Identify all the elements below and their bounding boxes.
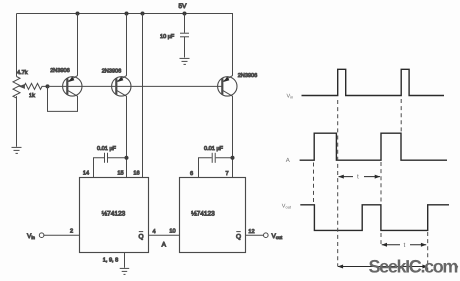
svg-text:Vin: Vin xyxy=(287,94,294,100)
resistor R2 1k xyxy=(24,83,48,89)
dashed line at A rise1 / Vout fall1 xyxy=(313,163,315,204)
svg-text:12: 12 xyxy=(248,229,254,235)
wire: Q2 collector to pin15 xyxy=(126,96,128,178)
capacitor C2 0.01uF xyxy=(94,153,127,178)
wire: Q2 emitter to rail xyxy=(126,14,128,76)
waveform A xyxy=(300,133,447,160)
node: rail junction pin16 wire xyxy=(141,12,145,16)
wire: pin16 wire rail to U1 xyxy=(142,14,144,178)
wire: U2 pin12 to Vout terminal xyxy=(246,234,264,236)
node: rail junction above Q1 emitter xyxy=(76,12,80,16)
wire: Q1 emitter to rail xyxy=(77,14,79,76)
op-amp U2 74123 monostable xyxy=(180,178,246,253)
capacitor C3 0.01uF xyxy=(199,153,233,178)
ground: below R1 xyxy=(12,147,22,153)
node: rail junction above Q2 emitter xyxy=(125,12,129,16)
svg-text:4.7k: 4.7k xyxy=(17,69,28,76)
svg-text:6: 6 xyxy=(190,171,193,177)
svg-text:16: 16 xyxy=(133,171,139,177)
svg-text:½74123: ½74123 xyxy=(102,211,126,218)
svg-text:Q: Q xyxy=(236,234,241,241)
potentiometer R1 4.7k xyxy=(13,77,20,99)
svg-text:Vout: Vout xyxy=(282,204,292,210)
waveform Vout xyxy=(300,205,449,231)
svg-text:15: 15 xyxy=(117,171,123,177)
svg-text:1, 9, 8: 1, 9, 8 xyxy=(103,258,119,264)
wiper arrow of R1 xyxy=(20,85,25,88)
dashed line at Vin pulse2 edge xyxy=(400,99,402,132)
transistor Q3 2N3906 xyxy=(218,76,237,97)
dimension arrow t (A low time) xyxy=(338,175,380,179)
op-amp U1 74123 monostable xyxy=(80,178,149,253)
wire: Q1 collector to base loop xyxy=(48,86,78,111)
svg-text:2N3906: 2N3906 xyxy=(50,68,70,74)
terminal: Vout output xyxy=(264,233,269,238)
dashed line at Vout rise2 xyxy=(427,232,429,274)
ground: below C1 xyxy=(180,58,190,64)
svg-text:2N3906: 2N3906 xyxy=(238,73,258,79)
node: base junction dot xyxy=(46,84,50,88)
svg-text:0.01 µF: 0.01 µF xyxy=(97,146,116,152)
svg-text:5V: 5V xyxy=(179,3,188,10)
wire: base bus to Q1 Q2 Q3 xyxy=(48,85,223,87)
svg-text:A: A xyxy=(286,157,290,164)
wire: pot bottom to ground xyxy=(16,96,18,147)
svg-text:0.01 µF: 0.01 µF xyxy=(204,146,223,152)
ground: U1 pins xyxy=(120,268,130,274)
wire: Q3 collector to pin7 xyxy=(232,96,234,178)
svg-text:14: 14 xyxy=(83,171,89,177)
svg-text:t: t xyxy=(357,174,359,181)
wire: left vertical from rail to pot xyxy=(16,14,18,77)
wire: Vin to U1 pin2 xyxy=(44,234,80,236)
node: C2 to pin15 junction xyxy=(125,156,129,160)
svg-text:Q: Q xyxy=(138,234,143,241)
svg-text:SeekIC.com: SeekIC.com xyxy=(369,257,458,277)
svg-text:A: A xyxy=(162,242,167,249)
transistor Q1 2N3906 xyxy=(63,76,82,97)
wire: U1 ground stem xyxy=(124,253,126,268)
svg-text:t: t xyxy=(404,242,406,249)
svg-text:2: 2 xyxy=(70,229,73,235)
svg-text:Vout: Vout xyxy=(272,233,283,240)
svg-text:10 µF: 10 µF xyxy=(160,34,175,40)
wire: U1 Q to U2 pin10, node A xyxy=(149,234,180,236)
svg-text:1k: 1k xyxy=(29,92,35,99)
wire: +5V top rail with right drop to Q3 emitter xyxy=(17,14,233,76)
svg-text:½74123: ½74123 xyxy=(191,211,215,218)
dashed line at A rise2 / Vout fall2 xyxy=(380,162,382,244)
terminal: Vin input xyxy=(39,233,44,238)
svg-text:7: 7 xyxy=(225,171,228,177)
node: 5V supply junction xyxy=(183,12,187,16)
dimension arrow t (Vout low time) xyxy=(382,243,427,247)
svg-text:Vin: Vin xyxy=(27,233,35,240)
transistor Q2 2N3906 xyxy=(112,76,131,97)
decorative mark right edge xyxy=(455,265,458,270)
dimension arrow period (bottom long) xyxy=(338,265,428,269)
svg-text:10: 10 xyxy=(169,229,175,235)
waveform Vin xyxy=(302,69,445,95)
svg-text:4: 4 xyxy=(152,229,155,235)
capacitor C1 10uF xyxy=(180,14,189,58)
node: C3 to pin7 junction xyxy=(231,156,235,160)
svg-text:2N3906: 2N3906 xyxy=(102,69,122,75)
dashed line at Vin pulse1 edge xyxy=(337,100,339,267)
